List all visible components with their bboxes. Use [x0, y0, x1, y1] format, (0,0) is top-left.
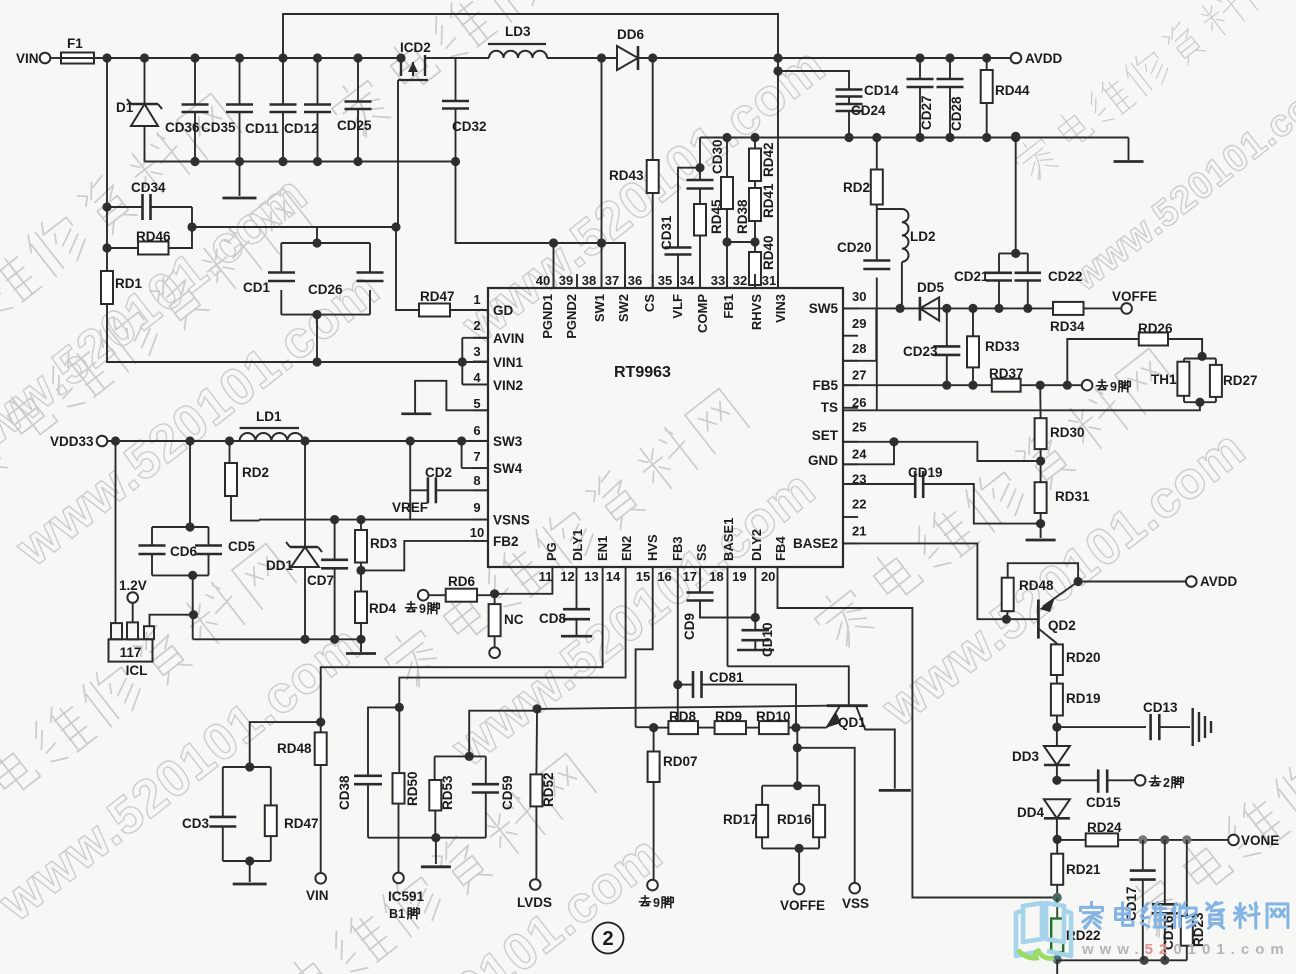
wire top loop from bus to VIN3 [283, 14, 778, 288]
resistor RD19 [1051, 675, 1101, 727]
svg-text:RD2: RD2 [843, 180, 870, 195]
capacitor CD12 [284, 58, 331, 162]
wire SET GND link [843, 437, 1041, 464]
svg-text:DD4: DD4 [1017, 805, 1044, 820]
svg-text:RD52: RD52 [541, 772, 556, 807]
svg-text:VDD33: VDD33 [50, 434, 94, 449]
wire QD1 node to RD17 and VSS [793, 728, 855, 883]
resistor RD10 [746, 709, 827, 734]
svg-text:BASE2: BASE2 [793, 536, 838, 551]
svg-text:CD24: CD24 [851, 103, 886, 118]
resistor RD26 [1138, 321, 1202, 356]
svg-text:CD8: CD8 [539, 611, 566, 626]
wire SW1 drop [601, 243, 603, 288]
svg-text:CD26: CD26 [308, 282, 343, 297]
ground left bottom bus [346, 639, 376, 653]
terminal AVDD right [1186, 574, 1238, 589]
terminal to pin9 left [418, 590, 429, 601]
svg-text:RD43: RD43 [609, 168, 644, 183]
svg-text:CD20: CD20 [837, 240, 872, 255]
node COMP branch [695, 163, 704, 172]
capacitor CD22 [1015, 253, 1083, 308]
svg-text:39: 39 [559, 273, 573, 288]
junctions on VDD33 bus [111, 436, 466, 445]
svg-text:CD7: CD7 [307, 573, 334, 588]
page number 2 mark [593, 923, 624, 954]
junction RD48 base node [1002, 615, 1011, 624]
svg-text:CD15: CD15 [1086, 795, 1121, 810]
resistor RD37 [989, 366, 1082, 392]
svg-text:CD1: CD1 [243, 280, 270, 295]
svg-text:17: 17 [683, 569, 697, 584]
svg-text:26: 26 [852, 395, 866, 410]
wire VDD33 bus [107, 440, 488, 442]
wire bus ICD2 to LD3 [425, 57, 489, 59]
svg-text:AVIN: AVIN [493, 331, 524, 346]
wire AVIN VIN1 VIN2 bracket [462, 338, 488, 385]
diode DD4 [1017, 799, 1070, 839]
transistor QD2 [1038, 577, 1082, 645]
svg-text:NC: NC [504, 612, 524, 627]
svg-text:RD24: RD24 [1087, 820, 1122, 835]
wire COMP node riser [699, 138, 701, 168]
svg-text:RD38: RD38 [735, 199, 750, 234]
junction RHVS node [750, 237, 759, 246]
svg-text:28: 28 [852, 341, 866, 356]
svg-text:QD1: QD1 [838, 715, 866, 730]
capacitor CD24 [836, 101, 887, 138]
junction top bus crossing [773, 53, 782, 62]
junctions on ground bus [190, 157, 460, 166]
wire VLF branch [678, 168, 700, 248]
svg-text:29: 29 [852, 316, 866, 331]
wire FB3 down to RD8 row [677, 685, 679, 729]
terminal VDD33 [50, 434, 107, 449]
inductor LD2 [902, 209, 936, 308]
svg-text:CD34: CD34 [131, 180, 166, 195]
capacitor CD3 RD47 pair [182, 762, 271, 861]
svg-text:SW3: SW3 [493, 434, 523, 449]
wire PGND1 drop [553, 243, 555, 288]
wire ground bus under caps [145, 161, 456, 163]
junction LD2 bottom [896, 304, 905, 313]
svg-text:DD1: DD1 [266, 558, 293, 573]
capacitor CD15 [1057, 769, 1135, 810]
junction DLY2 node [751, 613, 760, 622]
svg-text:13: 13 [584, 569, 598, 584]
wire FB2 link [361, 541, 488, 571]
IC bottom pin labels [544, 518, 788, 561]
IC bottom pin numbers [539, 569, 776, 584]
svg-text:CD2: CD2 [425, 465, 452, 480]
svg-text:FB4: FB4 [773, 536, 788, 561]
svg-text:CD27: CD27 [919, 95, 934, 130]
svg-text:CD17: CD17 [1124, 886, 1139, 921]
svg-text:VIN1: VIN1 [493, 355, 524, 370]
resistor RD46 [107, 227, 192, 255]
svg-text:SW5: SW5 [809, 301, 839, 316]
svg-text:LD1: LD1 [256, 409, 282, 424]
svg-text:31: 31 [762, 273, 776, 288]
svg-text:CD6: CD6 [170, 544, 197, 559]
junctions FB5 [942, 381, 977, 390]
svg-text:9: 9 [653, 896, 660, 910]
wire VIN branch down left [106, 58, 108, 207]
junction CD34 node [102, 202, 111, 211]
svg-text:F1: F1 [67, 36, 83, 51]
resistor RD38 [721, 138, 750, 289]
svg-text:CD35: CD35 [201, 120, 236, 135]
svg-text:RD48: RD48 [277, 741, 312, 756]
capacitor CD5 [195, 527, 255, 575]
junction RD30 top and RD26 riser [1036, 381, 1072, 390]
terminal 1.2V [119, 578, 147, 622]
junction RD4 bottom [356, 635, 365, 644]
resistor RD48 bottom [277, 722, 327, 873]
capacitor CD23 [903, 308, 960, 385]
junction RD31 bottom [1036, 519, 1045, 528]
resistor RD31 [1035, 461, 1090, 524]
svg-text:FB1: FB1 [721, 294, 736, 319]
IC right pin labels [793, 301, 839, 551]
junction GD riser [391, 222, 400, 231]
junction FB3 CD81 node [673, 680, 682, 689]
wire QD2 emitter to AVDD [1078, 581, 1186, 583]
resistor NC [489, 594, 524, 658]
wire CD3 box bottom and ground [223, 856, 271, 884]
resistor RD07 [648, 728, 698, 880]
terminal VIN [16, 51, 61, 66]
IC U1 RT9963 body [488, 288, 843, 567]
svg-text:CD28: CD28 [949, 96, 964, 131]
IC right pin numbers [852, 289, 867, 539]
resistor RD33 [967, 308, 1020, 385]
svg-text:FB5: FB5 [812, 378, 838, 393]
svg-text:9: 9 [1110, 380, 1117, 394]
svg-text:HVS: HVS [645, 534, 660, 561]
transistor QD1 [728, 666, 895, 788]
svg-text:RD31: RD31 [1055, 489, 1090, 504]
junction PGND1 [549, 238, 558, 247]
capacitor CD38 [337, 707, 399, 837]
terminal AVDD top [1011, 51, 1063, 66]
resistor RD9 [698, 709, 746, 734]
label qu9jiao left [405, 602, 439, 616]
svg-text:CD22: CD22 [1048, 269, 1083, 284]
svg-text:RD07: RD07 [663, 754, 698, 769]
svg-text:CD5: CD5 [228, 539, 255, 554]
regulator ICL 117 [109, 622, 155, 678]
svg-text:VOFFE: VOFFE [1112, 289, 1157, 304]
wire CD14 branch from VIN3 riser [773, 66, 849, 85]
wire CD34 right corner [191, 207, 193, 227]
resistor RD42 [749, 138, 776, 189]
svg-text:40: 40 [536, 273, 550, 288]
svg-text:CD31: CD31 [659, 215, 674, 250]
svg-text:RD4: RD4 [369, 601, 396, 616]
resistor RD40 [749, 235, 776, 288]
svg-text:LD3: LD3 [505, 24, 531, 39]
svg-text:10: 10 [470, 525, 484, 540]
svg-text:DD5: DD5 [917, 280, 944, 295]
terminal VOFFE bottom [780, 848, 825, 913]
junction SW1 node [597, 238, 606, 247]
wire PG link [495, 581, 553, 594]
svg-text:AVDD: AVDD [1025, 51, 1063, 66]
svg-text:24: 24 [852, 446, 867, 461]
IC bottom pin ticks [552, 567, 777, 581]
svg-text:RD34: RD34 [1050, 319, 1085, 334]
junction CD7 bottom [330, 635, 339, 644]
svg-text:CD32: CD32 [452, 119, 487, 134]
svg-text:RT9963: RT9963 [614, 364, 671, 381]
svg-text:RHVS: RHVS [749, 294, 764, 330]
junction QD1 emitter node [791, 723, 800, 732]
ground right of node line [1114, 138, 1144, 162]
svg-text:QD2: QD2 [1048, 618, 1076, 633]
resistor RD53 CD59 pair [429, 752, 486, 838]
IC top pin numbers [536, 273, 776, 288]
terminal IC591 B1 [388, 873, 425, 921]
svg-text:VIN3: VIN3 [773, 294, 788, 323]
svg-text:RD19: RD19 [1066, 691, 1101, 706]
svg-text:PGND1: PGND1 [540, 294, 555, 339]
wire RD2 to LD2 and CD20 [876, 205, 878, 210]
capacitor CD19 [843, 465, 1041, 524]
junction VIN1 bracket [458, 357, 467, 366]
svg-text:15: 15 [636, 569, 650, 584]
diode D1 [116, 58, 162, 162]
resistor RD47 bottom [265, 767, 319, 861]
svg-text:RD1: RD1 [115, 276, 142, 291]
junction CD15 node [1052, 776, 1061, 785]
terminal VIN bottom [306, 873, 329, 903]
wire RD1 column [107, 207, 488, 362]
junctions on node line [722, 133, 1020, 142]
resistor RD27 [1184, 359, 1258, 407]
svg-text:2: 2 [602, 928, 613, 950]
terminal LVDS [517, 879, 552, 910]
svg-text:AVDD: AVDD [1200, 574, 1238, 589]
svg-text:DD3: DD3 [1012, 749, 1039, 764]
capacitor CD14 [836, 83, 900, 101]
resistor RD6 [429, 574, 495, 602]
svg-text:RD48: RD48 [1019, 578, 1054, 593]
IC right pin ticks [843, 308, 858, 543]
svg-text:CD30: CD30 [710, 139, 725, 174]
svg-text:RD10: RD10 [756, 709, 791, 724]
svg-text:1.2V: 1.2V [119, 578, 147, 593]
thermistor TH1 RD27 pair [1151, 352, 1216, 402]
capacitor CD36 [165, 58, 209, 162]
capacitor CD27 [907, 53, 935, 137]
resistor RD44 [981, 53, 1030, 137]
svg-text:TH1: TH1 [1151, 372, 1177, 387]
IC top pin ticks [554, 274, 779, 288]
svg-text:8: 8 [473, 473, 480, 488]
capacitor CD1 and CD26 box [243, 227, 370, 315]
svg-text:16: 16 [657, 569, 671, 584]
resistor RD17 RD16 pair [723, 781, 819, 848]
svg-text:22: 22 [852, 497, 866, 512]
ground RD31 [1026, 524, 1056, 540]
svg-text:D1: D1 [116, 100, 134, 115]
svg-text:SS: SS [694, 543, 709, 561]
inductor LD1 [240, 409, 310, 446]
wire pin5 pulse symbol [401, 381, 488, 414]
capacitor CD6 CD5 box [139, 441, 209, 575]
resistor RD43 [609, 58, 659, 288]
svg-text:VONE: VONE [1241, 833, 1279, 848]
wire FB1-RHVS link [727, 241, 755, 243]
svg-text:CD11: CD11 [245, 121, 279, 136]
junction RD24 node [1053, 835, 1062, 844]
svg-text:CD59: CD59 [500, 775, 515, 810]
wire VONE bottom return [1057, 956, 1187, 965]
junction RD6 right [490, 589, 499, 598]
node junctions on VIN bus [102, 53, 362, 62]
terminal to pin9 right [1082, 380, 1131, 394]
capacitor CD2 [410, 465, 488, 503]
junction RD22 bottom [1053, 955, 1062, 964]
wire BASE1 branch [727, 581, 729, 666]
wire RD26 branch [1067, 339, 1139, 385]
svg-text:1: 1 [473, 292, 480, 307]
wire RD8 row left [636, 726, 654, 728]
resistor RD3 [355, 520, 397, 571]
junction RD50 node [395, 703, 404, 712]
wire CD1 box bottom [281, 310, 370, 367]
svg-text:VIN2: VIN2 [493, 378, 523, 393]
svg-text:VSS: VSS [842, 896, 869, 911]
IC left pin labels [493, 303, 530, 549]
wire RD22 stub to edge [1056, 960, 1058, 974]
svg-text:VLF: VLF [670, 294, 685, 319]
capacitor CD31 [659, 215, 692, 288]
svg-text:RD9: RD9 [715, 709, 742, 724]
svg-text:RD47: RD47 [284, 816, 319, 831]
capacitor CD11 [245, 58, 297, 162]
svg-text:20: 20 [761, 569, 775, 584]
svg-text:VOFFE: VOFFE [780, 898, 825, 913]
junction FB2 node [356, 566, 365, 575]
svg-text:VSNS: VSNS [493, 513, 530, 528]
resistor RD41 [749, 183, 776, 242]
resistor RD2 right [843, 138, 883, 205]
svg-text:21: 21 [852, 524, 866, 539]
resistor RD2 left [225, 441, 269, 521]
junction RD52 node [533, 704, 542, 713]
wire CD20 down to TS line [876, 278, 878, 411]
wire CD3 branch [250, 722, 321, 767]
svg-text:38: 38 [582, 273, 596, 288]
wire VSNS line [259, 520, 488, 521]
earth ground CD13 [1193, 708, 1211, 746]
svg-text:CD10: CD10 [760, 622, 775, 657]
junction RD07 node [649, 723, 658, 732]
svg-text:RD37: RD37 [989, 366, 1024, 381]
svg-text:7: 7 [473, 449, 480, 464]
svg-text:RD50: RD50 [405, 771, 420, 806]
svg-text:SW4: SW4 [493, 461, 523, 476]
capacitor CD81 [678, 670, 796, 728]
svg-text:RD3: RD3 [370, 536, 397, 551]
wire ICL right pin to CD6 node [150, 615, 194, 627]
terminal VOFFE right [1112, 289, 1157, 314]
wire CD38 bottom line [368, 833, 486, 867]
svg-text:RD30: RD30 [1050, 425, 1085, 440]
svg-text:CD38: CD38 [337, 775, 352, 810]
ground QD1 collector [879, 789, 911, 792]
svg-text:LVDS: LVDS [517, 895, 552, 910]
svg-text:27: 27 [852, 368, 866, 383]
resistor RD4 [355, 570, 396, 639]
svg-text:5: 5 [473, 396, 480, 411]
zener DD1 [266, 441, 322, 639]
resistor RD48 right [1002, 563, 1078, 619]
wire SW5 line [843, 307, 1028, 309]
svg-text:CD14: CD14 [864, 83, 899, 98]
capacitor CD26 [308, 243, 384, 315]
svg-text:IC591: IC591 [388, 889, 425, 904]
diode DD5 [917, 280, 951, 321]
junction DD1 bottom [300, 635, 309, 644]
svg-text:RD46: RD46 [136, 229, 171, 244]
svg-text:12: 12 [560, 569, 574, 584]
svg-text:SET: SET [812, 428, 839, 443]
wire VDD33 down to ICL [115, 441, 117, 623]
svg-text:RD16: RD16 [777, 812, 812, 827]
ground for cap bus [223, 162, 257, 199]
wire FB5 line [843, 384, 992, 386]
svg-text:BASE1: BASE1 [721, 518, 736, 561]
capacitor CD17 [1124, 840, 1156, 960]
capacitor CD25 [337, 58, 372, 162]
resistor RD45 [694, 198, 724, 288]
svg-text:LD2: LD2 [910, 229, 936, 244]
capacitor CD10 [737, 581, 775, 657]
wire CD2 tap [409, 441, 411, 520]
svg-text:EN1: EN1 [595, 536, 610, 561]
junctions VONE line [1138, 835, 1191, 844]
capacitor CD32 [442, 58, 487, 162]
wire GD riser down [396, 227, 419, 310]
svg-text:RD40: RD40 [761, 235, 776, 270]
svg-text:CD13: CD13 [1143, 700, 1178, 715]
svg-text:GND: GND [808, 453, 838, 468]
svg-text:CD3: CD3 [182, 816, 209, 831]
junction divider mid [1036, 456, 1045, 465]
svg-text:CD19: CD19 [908, 465, 943, 480]
svg-text:FB3: FB3 [670, 536, 685, 561]
wire PGND line from CD32 [456, 162, 626, 289]
wire main VIN bus [94, 57, 401, 59]
resistor RD21 [1051, 840, 1101, 898]
svg-text:CD12: CD12 [284, 121, 319, 136]
capacitor CD20 [837, 209, 890, 269]
terminal VONE [1228, 833, 1279, 848]
capacitor CD34 [107, 180, 192, 220]
svg-text:CD36: CD36 [165, 120, 200, 135]
junction VIN node [316, 718, 325, 727]
IC top pin labels [540, 294, 788, 339]
svg-text:6: 6 [473, 423, 480, 438]
resistor RD22 green [1051, 898, 1100, 960]
resistor RD50 [393, 707, 421, 872]
svg-text:CD25: CD25 [337, 118, 372, 133]
svg-text:DD6: DD6 [617, 27, 644, 42]
svg-text:RD33: RD33 [985, 339, 1020, 354]
